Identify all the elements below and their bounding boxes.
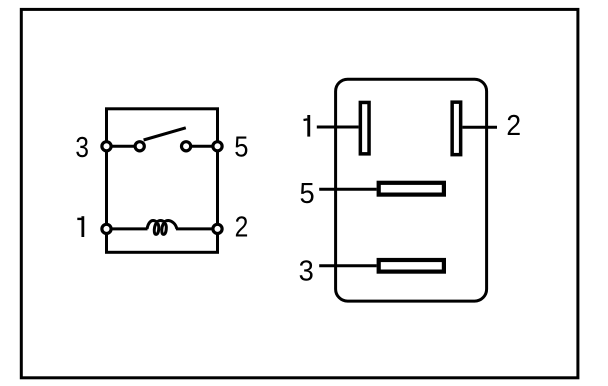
pin 2 lead <box>462 126 497 129</box>
pin 1 slot <box>360 102 369 153</box>
pin 5 lead <box>319 188 376 191</box>
svg-text:3: 3 <box>299 255 314 287</box>
svg-text:3: 3 <box>75 131 89 163</box>
relay K1 body <box>107 109 218 253</box>
wire <box>186 145 217 148</box>
node 5 terminal <box>213 142 222 151</box>
connector body <box>336 79 487 301</box>
wire <box>107 227 148 230</box>
pin 2 slot <box>452 102 461 154</box>
node 3 terminal <box>102 142 111 151</box>
pin 1 lead <box>317 126 359 129</box>
switch contact b <box>182 142 191 151</box>
pin 5 slot <box>379 183 444 195</box>
coil L1 <box>147 220 177 234</box>
label 1 (relay) <box>81 216 84 237</box>
node 2 terminal <box>213 224 222 233</box>
label 1 (connector) <box>307 115 310 137</box>
switch arm <box>144 128 186 140</box>
wire <box>176 227 218 230</box>
wire <box>107 145 140 148</box>
svg-text:2: 2 <box>235 211 249 243</box>
svg-text:2: 2 <box>506 109 521 141</box>
node 1 terminal <box>102 224 111 233</box>
pin 3 lead <box>319 264 376 267</box>
switch contact a <box>135 142 144 151</box>
svg-text:5: 5 <box>300 177 315 209</box>
svg-text:5: 5 <box>234 130 248 163</box>
pin 3 slot <box>379 260 444 272</box>
